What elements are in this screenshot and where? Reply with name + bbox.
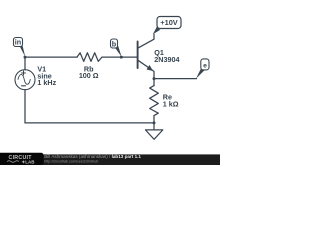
V1 sine symbol [18,74,30,84]
svg-text:✦LAB: ✦LAB [22,159,36,164]
svg-text:1 kΩ: 1 kΩ [163,100,179,109]
wire: emitter rail to e node [154,78,197,80]
svg-text:b: b [112,39,117,48]
svg-text:100 Ω: 100 Ω [79,71,99,80]
node B junction dot (b) [120,56,123,59]
bottom junction dot [153,121,156,124]
e flag tail [196,67,205,78]
Q1 emitter arrowhead [147,65,154,71]
watermark bar [0,154,220,165]
svg-text:Bill Ashmanskas (ashmanskas) /: Bill Ashmanskas (ashmanskas) / lab13 par… [44,154,141,159]
svg-text:http://circuitlab.com/cee31lrm: http://circuitlab.com/cee31lrmbub [44,160,98,164]
wire: V1 bottom lead [24,90,26,123]
node label b [111,39,118,48]
V1 plus sign [22,72,26,74]
in flag tail [19,45,26,57]
node label e [201,59,209,70]
node A junction dot (in) [24,56,27,59]
b flag tail [115,46,122,57]
svg-text:1 kHz: 1 kHz [37,78,56,87]
transistor Q1 base bar [137,42,139,69]
CircuitLab logo badge [0,153,44,165]
logo squiggle [7,161,19,163]
resistor Re bottom lead [153,116,155,123]
ground triangle [145,130,162,139]
voltage source V1 circle [15,70,35,90]
node label in [14,38,23,47]
Q1 collector wire [138,34,154,48]
wire: V1 top lead [24,57,26,70]
Q1 emitter wire [138,60,154,78]
ground stem [153,123,155,130]
emitter junction dot [153,77,156,80]
resistor Re zigzag [150,86,159,116]
power node +10V [157,17,181,29]
svg-text:e: e [203,62,207,69]
wire: in node to Rb [25,56,77,58]
V1 minus sign [22,85,26,87]
resistor Re top lead [153,79,155,86]
resistor Rb zigzag [77,53,102,62]
svg-text:+10V: +10V [160,18,178,27]
wire: bottom rail [25,122,154,124]
svg-text:2N3904: 2N3904 [154,55,179,64]
wire: Rb to Q1 base [102,56,137,58]
svg-text:in: in [15,38,21,47]
+10V flag tail [153,27,160,34]
